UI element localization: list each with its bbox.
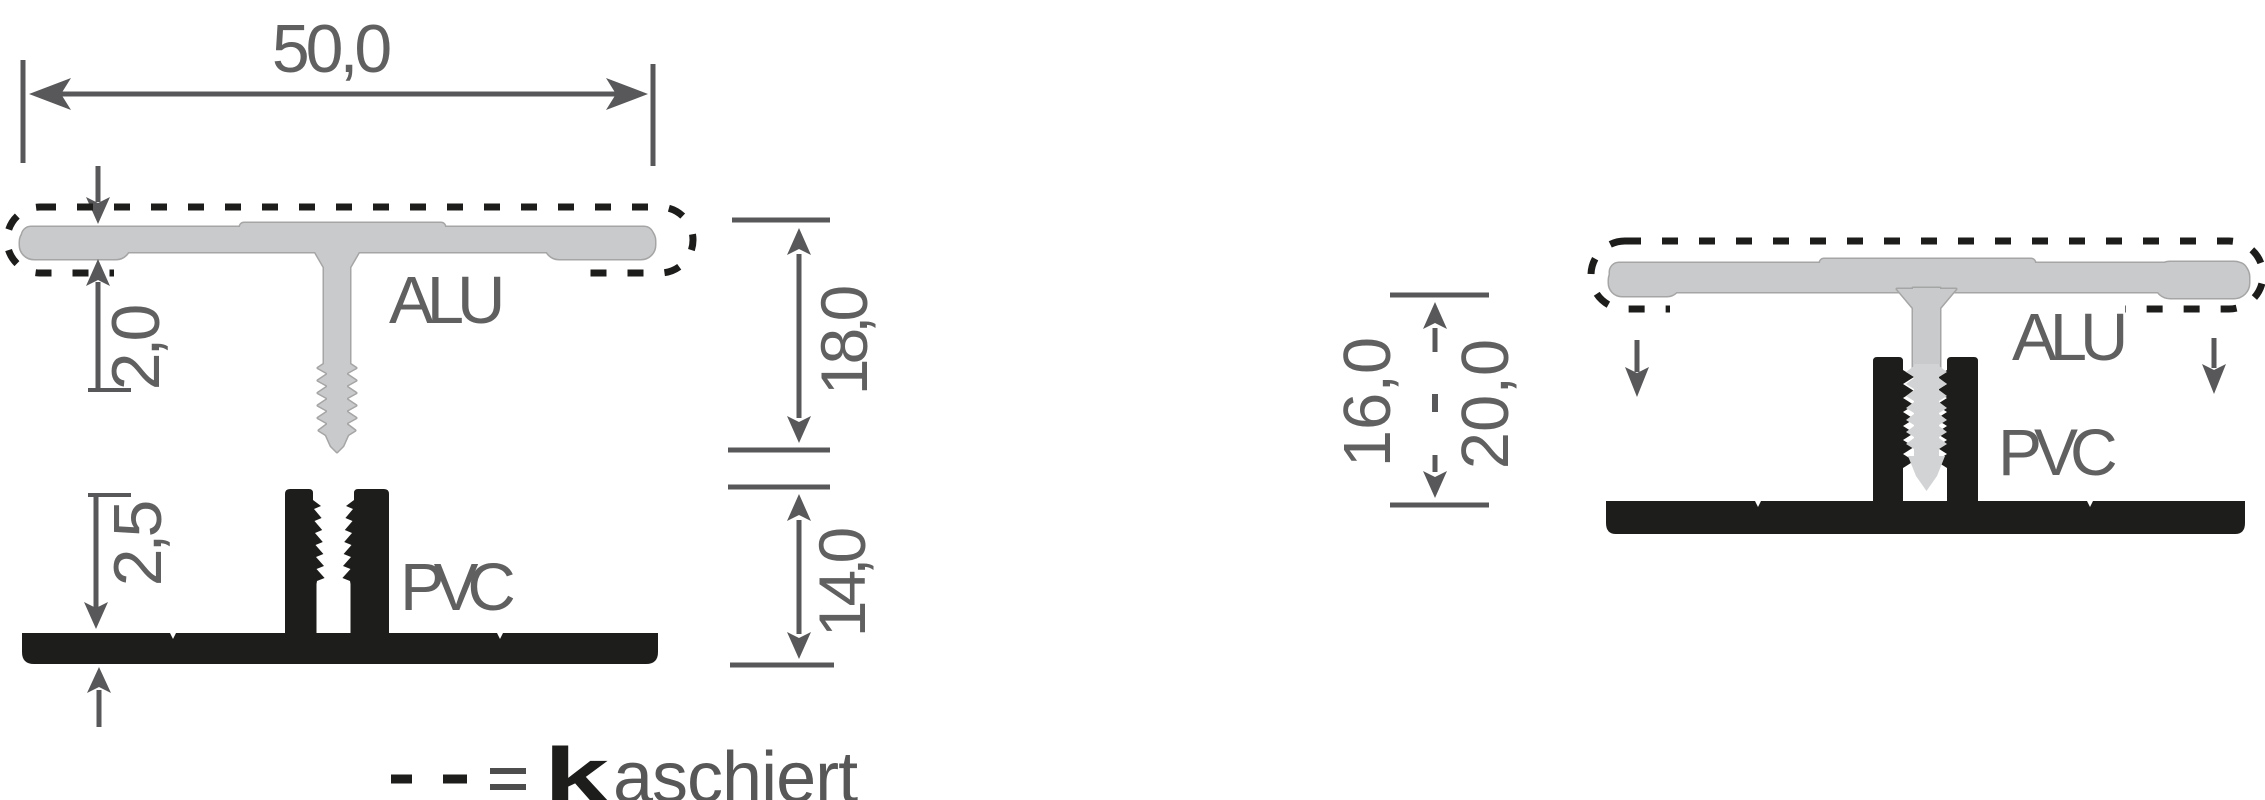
svg-text:PVC: PVC [400, 550, 513, 625]
svg-text:2,5: 2,5 [100, 503, 176, 587]
svg-text:k: k [544, 732, 610, 800]
svg-text:14,0: 14,0 [805, 528, 879, 637]
svg-text:PVC: PVC [1998, 415, 2116, 489]
svg-text:20,0: 20,0 [1448, 339, 1523, 469]
svg-text:ALU: ALU [389, 263, 501, 338]
svg-text:50,0: 50,0 [272, 11, 391, 87]
svg-text:ALU: ALU [2012, 300, 2124, 375]
svg-text:16,0: 16,0 [1330, 337, 1405, 467]
svg-text:18,0: 18,0 [807, 286, 881, 395]
svg-text:aschiert: aschiert [613, 738, 858, 800]
svg-text:2,0: 2,0 [98, 306, 174, 391]
